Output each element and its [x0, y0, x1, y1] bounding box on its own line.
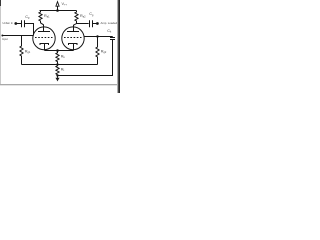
- svg-text:Unbal. In: Unbal. In: [3, 21, 14, 25]
- svg-text:Ra2: Ra2: [80, 14, 86, 19]
- svg-text:Ra1: Ra1: [44, 14, 50, 19]
- svg-text:Input: Input: [2, 37, 8, 41]
- svg-text:Amp. Loaded: Amp. Loaded: [101, 21, 118, 25]
